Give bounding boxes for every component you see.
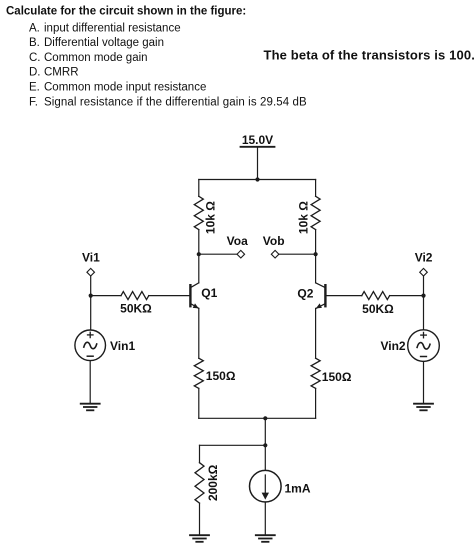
svg-text:150Ω: 150Ω (206, 369, 236, 383)
svg-text:Vi1: Vi1 (82, 250, 100, 264)
ground RB (190, 535, 209, 542)
svg-text:A.: A. (29, 22, 40, 34)
ground Vin1 (81, 404, 100, 411)
svg-text:B.: B. (29, 37, 40, 49)
resistor RB 200k ohm (195, 463, 204, 503)
wire Vi1 down to source (90, 276, 92, 330)
resistor RE2 150 ohm right (311, 358, 320, 388)
svg-text:Common mode input resistance: Common mode input resistance (44, 82, 206, 94)
svg-text:F.: F. (29, 96, 38, 108)
svg-text:D.: D. (29, 67, 41, 79)
wire right collector top (315, 180, 317, 197)
list item D (29, 67, 79, 79)
svg-text:10k Ω: 10k Ω (204, 201, 218, 234)
wire bottom rail (199, 417, 316, 419)
list item E (29, 82, 206, 94)
list item A (29, 22, 181, 34)
wire Vi2 to RB2 (390, 295, 424, 297)
ground I1 (256, 535, 275, 542)
wire RB1 to Q1 base (149, 295, 190, 297)
node dot Vi1 (89, 294, 93, 298)
wire RC2 bottom to node Vob (315, 230, 317, 255)
wire I1 to ground (264, 502, 266, 535)
svg-text:Vi2: Vi2 (415, 250, 433, 264)
current source I1 1mA (249, 470, 281, 502)
supply V+ bar (241, 146, 275, 148)
svg-text:150Ω: 150Ω (322, 370, 352, 384)
svg-text:Vob: Vob (263, 234, 285, 248)
svg-text:Q1: Q1 (201, 286, 217, 300)
wire RE2 to bottom rail (315, 388, 317, 418)
wire supply to top rail (257, 147, 259, 180)
resistor RB1 50K ohm (121, 292, 149, 300)
terminal diamond Vi2 (420, 268, 428, 276)
terminal diamond Vi1 (87, 268, 95, 276)
wire RE1 to bottom rail (198, 388, 200, 418)
list item C (29, 52, 148, 64)
source Vin1 (75, 330, 106, 361)
wire RC1 bottom to node Voa (198, 230, 200, 255)
node dot right collector (314, 252, 318, 256)
svg-text:CMRR: CMRR (44, 67, 79, 79)
svg-text:50KΩ: 50KΩ (362, 302, 394, 316)
wire left collector top (198, 180, 200, 197)
ground Vin2 (414, 404, 433, 411)
svg-text:Common mode gain: Common mode gain (44, 52, 148, 64)
resistor RC2 10k ohm right (311, 196, 320, 229)
terminal diamond Voa (237, 250, 245, 258)
wire Vi1 to RB1 (91, 295, 121, 297)
wire top rail (199, 179, 316, 181)
transistor Q1 (190, 254, 198, 358)
wire Vin1 to ground (89, 361, 91, 404)
svg-text:Differential voltage gain: Differential voltage gain (44, 37, 164, 49)
svg-text:Q2: Q2 (297, 286, 313, 300)
svg-text:E.: E. (29, 82, 40, 94)
node dot bottom rail (263, 416, 267, 420)
node dot tail branch (263, 443, 267, 447)
wire Vin2 to ground (423, 361, 425, 403)
node dot supply/top rail (255, 177, 259, 181)
node dot left collector (197, 252, 201, 256)
svg-text:10k Ω: 10k Ω (296, 201, 310, 234)
terminal diamond Vob (271, 250, 279, 258)
wire node Voa (199, 253, 237, 255)
svg-text:input differential resistance: input differential resistance (44, 22, 181, 34)
svg-text:Voa: Voa (227, 234, 248, 248)
source Vin2 (408, 330, 440, 362)
list item B (29, 37, 164, 49)
resistor RC1 10k ohm left (194, 196, 203, 229)
list item F (29, 96, 307, 108)
svg-text:Vin2: Vin2 (380, 339, 405, 353)
svg-text:The beta of the transistors is: The beta of the transistors is 100. (264, 48, 474, 63)
node dot Vi2 (421, 294, 425, 298)
svg-text:C.: C. (29, 52, 41, 64)
svg-text:Vin1: Vin1 (110, 339, 135, 353)
svg-text:Signal resistance if the diffe: Signal resistance if the differential ga… (44, 96, 307, 108)
wire RB top (199, 445, 201, 462)
svg-text:1mA: 1mA (285, 481, 311, 495)
wire branch to RB (200, 444, 266, 446)
wire node Vob (279, 253, 316, 255)
wire tail node down (264, 418, 266, 470)
svg-text:Calculate for the circuit show: Calculate for the circuit shown in the f… (6, 5, 246, 17)
svg-text:200kΩ: 200kΩ (206, 464, 220, 501)
wire RB bottom to ground (199, 503, 201, 535)
wire Vi2 down to source (423, 276, 425, 330)
resistor RB2 50K ohm (362, 292, 390, 300)
svg-text:15.0V: 15.0V (242, 133, 273, 147)
svg-text:50KΩ: 50KΩ (120, 301, 152, 315)
resistor RE1 150 ohm left (194, 358, 203, 388)
wire RB2 to Q2 base (327, 295, 362, 297)
transistor Q2 (316, 254, 326, 358)
